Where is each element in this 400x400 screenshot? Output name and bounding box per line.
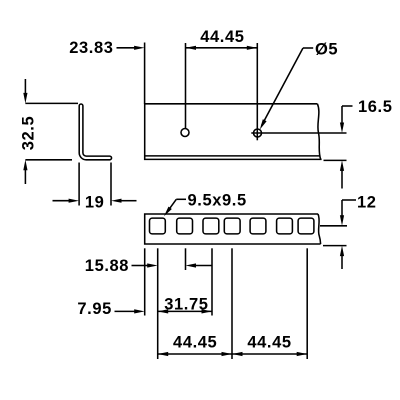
front view bend inner line (145, 155, 320, 157)
extension line S2 center (185, 248, 187, 270)
hole H2 circle (diam 5) (254, 129, 262, 137)
svg-text:23.83: 23.83 (69, 39, 113, 57)
svg-text:44.45: 44.45 (173, 334, 217, 352)
dimension 19 left segment (53, 200, 70, 202)
square hole S5 (250, 218, 266, 234)
arrow 44.45 right end (297, 352, 308, 356)
dimension 19 right segment (121, 200, 137, 202)
dimension 12 shaft lower (341, 255, 343, 269)
dimension 32.5 shaft lower (24, 170, 26, 185)
dimension 44.45 top line (186, 47, 258, 49)
square hole S1 (150, 218, 166, 234)
dimension 15.88 line (132, 265, 148, 267)
extension line rail left edge (7.95) (144, 248, 146, 315)
leader arrow 9.5x9.5 (164, 207, 172, 217)
bottom view rail outline (145, 214, 321, 244)
arrow 44.45 top left (186, 46, 197, 50)
hole H1 circle (181, 129, 189, 137)
hole centerline right (12) (320, 225, 347, 227)
extension line S3 center (211, 248, 213, 315)
side view L profile (79, 104, 111, 160)
dimension 44.45 chain line (158, 353, 308, 355)
arrow 44.45 mid right (232, 352, 243, 356)
extension line bottom edge right (12) (323, 245, 347, 247)
extension line S7 center (306, 248, 308, 359)
arrow 15.88 left tip (147, 263, 158, 267)
svg-text:15.88: 15.88 (85, 257, 129, 275)
dimension 31.75 line (158, 310, 212, 312)
arrow 16.5 up (340, 160, 344, 171)
arrow 31.75 right (202, 309, 213, 313)
dimension 16.5 tick (342, 105, 353, 107)
extension line left edge (23.83) (144, 43, 146, 104)
leader arrow diam5 (260, 119, 267, 129)
svg-text:16.5: 16.5 (358, 98, 393, 116)
dimension 12 shaft upper (341, 200, 343, 217)
svg-text:44.45: 44.45 (247, 334, 291, 352)
svg-text:32.5: 32.5 (20, 116, 38, 151)
arrow 7.95 right tip (134, 309, 145, 313)
dimension 15.88 tail (196, 265, 213, 267)
extension line L outer face (19) (78, 163, 80, 206)
square hole S6 (277, 218, 293, 234)
front view rail outline (top view) (145, 104, 322, 160)
square hole S4 (224, 218, 240, 234)
arrow 44.45 top right (247, 46, 257, 50)
extension line L leg tip (19) (110, 163, 112, 206)
svg-text:9.5x9.5: 9.5x9.5 (188, 191, 247, 209)
leader tick diam5 (303, 47, 313, 49)
arrow 15.88 right tip (186, 263, 197, 267)
extension line L top (32.5) (25, 102, 78, 104)
bottom view break line (318, 214, 321, 244)
arrow 44.45 left end (158, 352, 169, 356)
extension line hole H1 (44.45 top) (185, 43, 187, 128)
arrow 12 down (340, 215, 344, 226)
dimension 12 tick (342, 199, 356, 201)
svg-text:44.45: 44.45 (200, 28, 244, 46)
front view break line (317, 104, 320, 160)
dimension 32.5 shaft upper (24, 79, 26, 94)
arrow 19 right (111, 199, 122, 203)
svg-text:31.75: 31.75 (164, 296, 208, 314)
svg-text:Ø5: Ø5 (315, 41, 338, 59)
arrow 32.5 up (23, 160, 27, 171)
leader line 9.5x9.5 (169, 199, 177, 210)
dimension 16.5 shaft lower (341, 170, 343, 189)
arrow 32.5 down (23, 93, 27, 104)
extension line S4 center (231, 248, 233, 359)
square hole S3 (203, 218, 219, 234)
leader tick 9.5x9.5 (176, 198, 186, 200)
arrow 23.83 right tip (134, 46, 145, 50)
square hole S7 (298, 218, 314, 234)
hole H2 crosshair vertical / extension line of 44.45 (256, 43, 258, 140)
dimension 23.83 line (117, 47, 135, 49)
arrow 31.75 left (158, 309, 169, 313)
arrow 12 up (340, 246, 344, 257)
square hole S2 (177, 218, 193, 234)
dimension 16.5 shaft upper (341, 106, 343, 124)
arrow 19 left (69, 199, 80, 203)
arrow 16.5 down (340, 123, 344, 134)
leader line diam5 (262, 48, 304, 126)
extension line S1 center (157, 248, 159, 359)
extension line bottom edge right (16.5) (324, 159, 347, 161)
svg-text:12: 12 (357, 194, 377, 212)
dimension 7.95 line (115, 310, 135, 312)
svg-text:7.95: 7.95 (77, 300, 112, 318)
extension line L bottom (32.5) (25, 159, 72, 161)
arrow 44.45 mid left (222, 352, 233, 356)
svg-text:19: 19 (85, 194, 105, 212)
hole H2 centerline horizontal (251, 132, 346, 134)
